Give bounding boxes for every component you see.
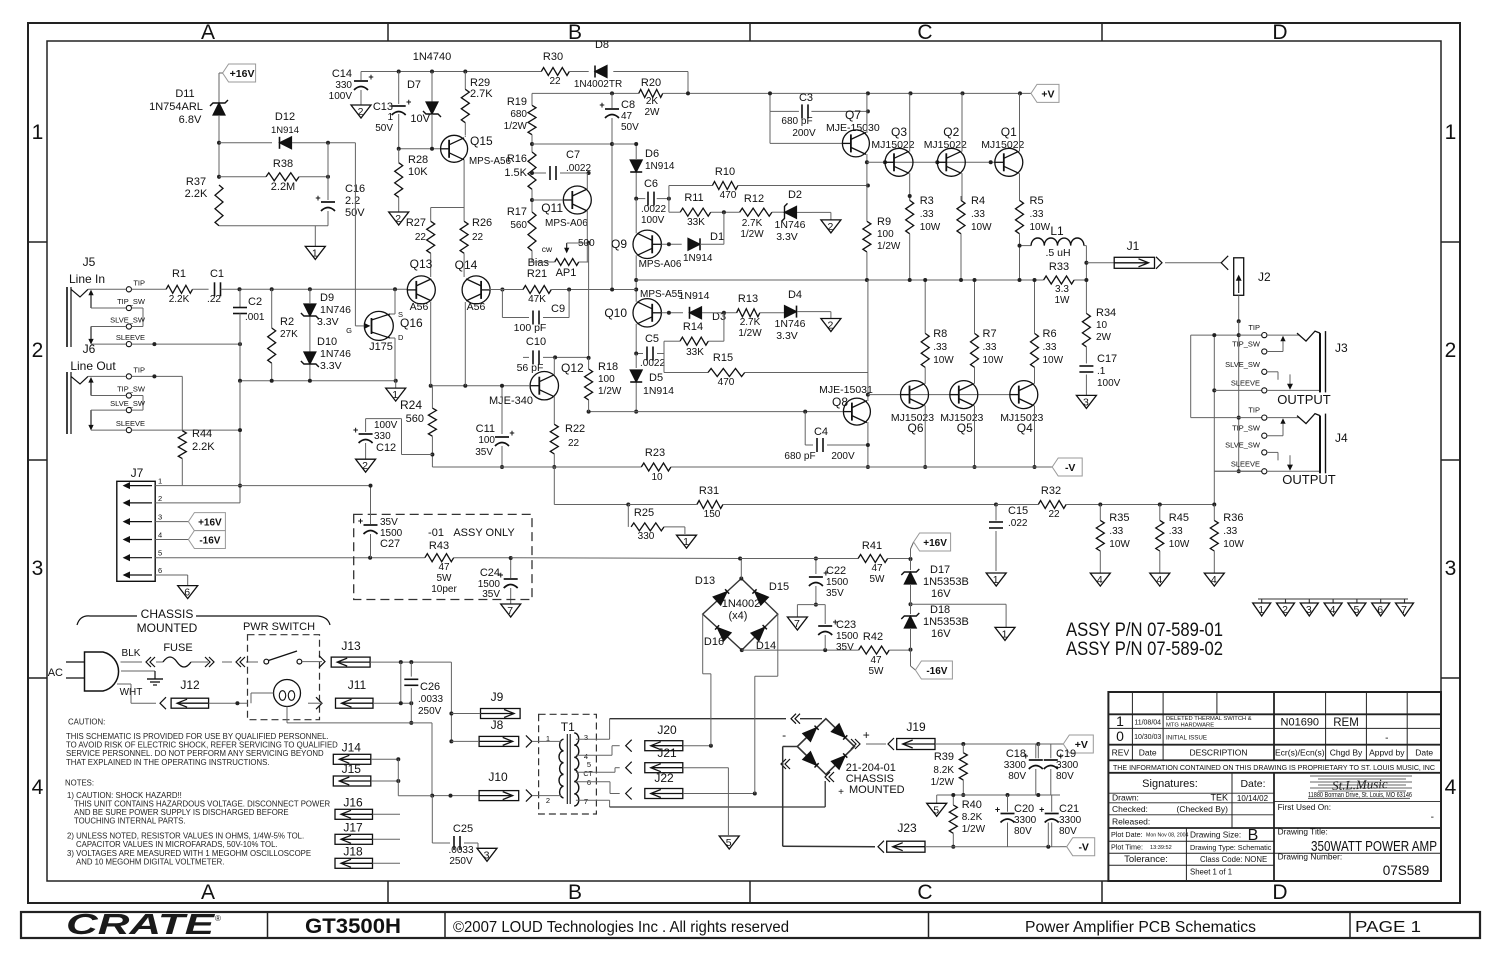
svg-text:D5: D5 [649, 372, 663, 384]
svg-text:TIP_SW: TIP_SW [117, 297, 146, 306]
svg-text:SLVE_SW: SLVE_SW [1225, 440, 1261, 449]
svg-text:R37: R37 [186, 176, 206, 188]
svg-text:TIP: TIP [1248, 406, 1260, 415]
svg-text:Drawn:: Drawn: [1112, 793, 1139, 803]
svg-text:C12: C12 [376, 442, 396, 454]
svg-text:5: 5 [158, 549, 162, 558]
svg-text:C1: C1 [210, 268, 224, 280]
svg-text:3300: 3300 [1059, 815, 1082, 826]
svg-text:Tolerance:: Tolerance: [1124, 854, 1168, 865]
svg-text:4: 4 [1330, 604, 1336, 616]
svg-text:10W: 10W [1169, 539, 1190, 550]
svg-text:Line Out: Line Out [70, 359, 116, 373]
svg-text:D15: D15 [769, 581, 789, 593]
svg-text:2: 2 [827, 221, 833, 233]
svg-text:C22: C22 [826, 565, 846, 577]
svg-text:47: 47 [621, 111, 633, 122]
svg-text:GT3500H: GT3500H [305, 915, 401, 938]
svg-text:R22: R22 [565, 423, 585, 435]
svg-text:330: 330 [335, 80, 352, 91]
svg-text:R36: R36 [1223, 512, 1243, 524]
svg-text:L1: L1 [1050, 224, 1064, 238]
svg-text:Q2: Q2 [943, 125, 959, 139]
svg-text:R21: R21 [527, 268, 547, 280]
svg-text:5W: 5W [870, 574, 886, 585]
svg-text:+16V: +16V [198, 518, 222, 529]
svg-text:TOUCHING INTERNAL PARTS.: TOUCHING INTERNAL PARTS. [74, 817, 185, 826]
svg-text:OUTPUT: OUTPUT [1277, 392, 1331, 407]
svg-text:J18: J18 [343, 844, 363, 858]
svg-text:CRATE: CRATE [66, 909, 217, 941]
svg-text:J21: J21 [657, 746, 677, 760]
svg-text:8.2K: 8.2K [933, 765, 954, 776]
svg-text:J3: J3 [1335, 341, 1348, 355]
svg-text:47K: 47K [528, 294, 546, 305]
svg-text:2.7K: 2.7K [742, 218, 763, 229]
svg-text:SLVE_SW: SLVE_SW [1225, 360, 1261, 369]
svg-text:R26: R26 [472, 217, 492, 229]
svg-text:C23: C23 [836, 619, 856, 631]
svg-text:R6: R6 [1043, 328, 1057, 340]
svg-text:1N914: 1N914 [271, 125, 299, 136]
svg-text:330: 330 [374, 431, 391, 442]
svg-text:-V: -V [1078, 842, 1089, 854]
svg-text:1: 1 [683, 536, 689, 548]
svg-text:6: 6 [587, 778, 591, 787]
svg-text:+: + [509, 428, 514, 438]
svg-text:1N4740: 1N4740 [413, 51, 452, 63]
svg-text:ASSY P/N 07-589-02: ASSY P/N 07-589-02 [1066, 639, 1223, 660]
svg-text:Q12: Q12 [561, 361, 584, 375]
svg-text:C: C [917, 881, 932, 904]
svg-text:6.8V: 6.8V [179, 114, 202, 126]
svg-text:MPS-A06: MPS-A06 [545, 218, 588, 229]
svg-text:G: G [346, 326, 352, 335]
svg-text:D10: D10 [317, 336, 337, 348]
svg-text:R27: R27 [406, 217, 426, 229]
svg-text:10V: 10V [410, 113, 430, 125]
svg-text:Signatures:: Signatures: [1142, 778, 1198, 790]
svg-text:(x4): (x4) [729, 610, 748, 622]
svg-text:.33: .33 [1030, 209, 1044, 220]
svg-text:J6: J6 [83, 342, 96, 356]
svg-text:R9: R9 [877, 216, 891, 228]
svg-text:1/2W: 1/2W [962, 824, 986, 835]
svg-text:TIP: TIP [133, 365, 145, 374]
svg-text:C10: C10 [526, 336, 546, 348]
svg-text:R13: R13 [738, 293, 758, 305]
svg-text:C5: C5 [645, 333, 659, 345]
svg-text:SLEEVE: SLEEVE [1231, 459, 1260, 468]
svg-text:REV: REV [1112, 748, 1130, 758]
svg-text:4: 4 [158, 531, 162, 540]
svg-text:B: B [568, 21, 582, 44]
svg-text:J5: J5 [83, 255, 96, 269]
svg-text:7: 7 [1401, 604, 1407, 616]
svg-text:Drawing Size:: Drawing Size: [1190, 829, 1241, 839]
svg-text:CHASSIS: CHASSIS [141, 607, 194, 621]
svg-text:DELETED THERMAL SWITCH &: DELETED THERMAL SWITCH & [1166, 716, 1252, 722]
svg-text:Date: Date [1139, 748, 1157, 758]
svg-text:Q11: Q11 [541, 201, 563, 215]
svg-text:+V: +V [1041, 88, 1054, 100]
svg-text:50V: 50V [375, 123, 393, 134]
svg-text:80V: 80V [1014, 826, 1032, 837]
svg-text:680: 680 [510, 109, 527, 120]
svg-text:Date:: Date: [1240, 778, 1265, 790]
svg-text:D1: D1 [710, 231, 724, 243]
svg-text:R7: R7 [983, 328, 997, 340]
svg-text:560: 560 [406, 413, 424, 425]
svg-text:C11: C11 [476, 423, 495, 435]
svg-text:R32: R32 [1041, 485, 1061, 497]
svg-text:1N754ARL: 1N754ARL [149, 101, 203, 113]
svg-text:250V: 250V [418, 706, 442, 717]
svg-text:7: 7 [794, 618, 800, 630]
svg-text:1500: 1500 [826, 577, 849, 588]
svg-text:47: 47 [871, 563, 883, 574]
svg-text:AND 10 MEGOHM DIGITAL VOLTMETE: AND 10 MEGOHM DIGITAL VOLTMETER. [76, 857, 224, 866]
svg-text:SLVE_SW: SLVE_SW [110, 316, 146, 325]
svg-text:1: 1 [1116, 713, 1124, 729]
svg-text:MJ15022: MJ15022 [981, 139, 1024, 151]
svg-text:D17: D17 [930, 564, 950, 576]
svg-text:2: 2 [358, 106, 364, 118]
svg-text:MJE-15030: MJE-15030 [826, 122, 880, 134]
svg-text:470: 470 [718, 377, 735, 388]
svg-text:35V: 35V [475, 447, 493, 458]
svg-text:C19: C19 [1056, 748, 1076, 760]
svg-text:1N5353B: 1N5353B [923, 576, 969, 588]
svg-text:cw: cw [542, 244, 553, 254]
svg-text:11/08/04: 11/08/04 [1134, 720, 1161, 727]
svg-text:22: 22 [1048, 509, 1060, 520]
svg-text:47: 47 [870, 655, 882, 666]
svg-text:10W: 10W [971, 222, 992, 233]
svg-text:C6: C6 [644, 178, 658, 190]
svg-text:6: 6 [1377, 604, 1383, 616]
svg-text:1W: 1W [1055, 295, 1071, 306]
svg-text:80V: 80V [1059, 826, 1077, 837]
svg-text:2: 2 [158, 494, 162, 503]
svg-text:Sheet 1 of 1: Sheet 1 of 1 [1190, 868, 1232, 877]
svg-text:7: 7 [584, 797, 588, 806]
svg-text:TIP: TIP [133, 278, 145, 287]
svg-text:2K: 2K [646, 96, 659, 107]
svg-text:1/2W: 1/2W [740, 229, 764, 240]
svg-text:C24: C24 [480, 567, 500, 579]
svg-text:R12: R12 [744, 193, 764, 205]
svg-text:C8: C8 [621, 99, 635, 111]
svg-text:.5 uH: .5 uH [1045, 247, 1070, 259]
svg-text:10/14/02: 10/14/02 [1237, 794, 1269, 803]
svg-text:27K: 27K [280, 329, 298, 340]
svg-text:Q8: Q8 [832, 395, 848, 409]
svg-text:3.3V: 3.3V [317, 316, 339, 328]
svg-text:-16V: -16V [199, 536, 220, 547]
svg-text:47: 47 [438, 562, 450, 573]
svg-text:-: - [1431, 812, 1434, 823]
svg-text:Drawing Title:: Drawing Title: [1278, 827, 1328, 837]
svg-text:10W: 10W [1109, 539, 1130, 550]
svg-text:R28: R28 [408, 154, 428, 166]
svg-text:.33: .33 [1043, 342, 1057, 353]
svg-text:1/2W: 1/2W [931, 777, 955, 788]
svg-text:TIP_SW: TIP_SW [117, 385, 146, 394]
svg-text:PAGE 1: PAGE 1 [1355, 919, 1421, 936]
svg-text:R30: R30 [543, 51, 563, 63]
svg-text:+V: +V [1075, 739, 1088, 751]
svg-text:-: - [782, 728, 786, 742]
svg-text:4: 4 [1097, 574, 1103, 586]
svg-text:+16V: +16V [923, 538, 947, 549]
svg-text:A: A [201, 881, 215, 904]
svg-text:Appvd by: Appvd by [1369, 748, 1405, 758]
svg-text:-01: -01 [428, 527, 444, 539]
svg-text:ASSY ONLY: ASSY ONLY [453, 527, 515, 539]
svg-text:2.2K: 2.2K [185, 188, 208, 200]
svg-text:100V: 100V [641, 215, 665, 226]
svg-text:1: 1 [1445, 121, 1457, 144]
svg-text:3300: 3300 [1014, 815, 1037, 826]
svg-text:MJE-340: MJE-340 [489, 395, 533, 407]
svg-text:NOTES:: NOTES: [65, 779, 94, 788]
svg-text:2W: 2W [645, 107, 661, 118]
svg-text:D: D [398, 333, 404, 342]
svg-text:Q9: Q9 [611, 237, 627, 251]
svg-text:3: 3 [158, 513, 162, 522]
svg-text:+16V: +16V [230, 68, 255, 80]
svg-text:J19: J19 [906, 720, 926, 734]
svg-text:OUTPUT: OUTPUT [1282, 472, 1336, 487]
svg-text:REM: REM [1333, 717, 1359, 729]
svg-text:First Used On:: First Used On: [1278, 802, 1331, 812]
svg-text:J11: J11 [348, 678, 367, 692]
svg-text:D11: D11 [175, 88, 194, 100]
svg-text:1: 1 [993, 574, 999, 586]
svg-text:07S589: 07S589 [1383, 863, 1430, 878]
svg-text:MTG HARDWARE: MTG HARDWARE [1166, 723, 1214, 729]
svg-text:B: B [1248, 827, 1259, 844]
svg-text:1: 1 [392, 389, 398, 401]
svg-text:6: 6 [158, 566, 162, 575]
svg-text:A56: A56 [410, 301, 429, 313]
svg-text:+: + [1039, 805, 1044, 815]
svg-text:4: 4 [1445, 776, 1457, 799]
svg-text:C26: C26 [420, 681, 440, 693]
svg-text:35V: 35V [380, 517, 398, 528]
svg-text:22: 22 [415, 232, 427, 243]
svg-text:C27: C27 [380, 538, 400, 550]
svg-text:2: 2 [32, 339, 44, 362]
svg-text:1: 1 [312, 247, 318, 259]
svg-text:Drawing Type: Schematic: Drawing Type: Schematic [1190, 843, 1272, 852]
svg-text:MOUNTED: MOUNTED [849, 784, 905, 796]
svg-text:J16: J16 [343, 795, 363, 809]
svg-text:4: 4 [32, 776, 44, 799]
svg-text:+: + [599, 100, 604, 110]
svg-text:ASSY P/N 07-589-01: ASSY P/N 07-589-01 [1066, 620, 1223, 641]
svg-text:(Checked By): (Checked By) [1177, 804, 1229, 814]
svg-text:J13: J13 [341, 639, 361, 653]
svg-text:Drawing Number:: Drawing Number: [1278, 852, 1343, 862]
svg-text:R10: R10 [715, 166, 735, 178]
svg-text:C18: C18 [1006, 748, 1026, 760]
svg-text:+: + [368, 72, 373, 82]
svg-text:R24: R24 [400, 398, 422, 412]
svg-text:35V: 35V [482, 589, 500, 600]
svg-text:80V: 80V [1056, 771, 1074, 782]
svg-text:TIP_SW: TIP_SW [1232, 340, 1261, 349]
svg-text:R41: R41 [862, 540, 882, 552]
svg-text:Q10: Q10 [604, 306, 627, 320]
svg-text:200V: 200V [792, 128, 816, 139]
svg-text:J9: J9 [491, 690, 504, 704]
svg-text:33K: 33K [686, 347, 704, 358]
svg-text:1N5353B: 1N5353B [923, 616, 969, 628]
svg-text:THAT EXPLAINED IN THE OPERATIN: THAT EXPLAINED IN THE OPERATING INSTRUCT… [66, 758, 269, 767]
svg-text:C20: C20 [1014, 803, 1034, 815]
svg-text:1N746: 1N746 [775, 318, 806, 330]
svg-text:100: 100 [877, 229, 894, 240]
svg-text:BLK: BLK [122, 648, 141, 659]
svg-text:D: D [1272, 881, 1287, 904]
svg-text:J22: J22 [654, 771, 674, 785]
svg-text:Released:: Released: [1112, 817, 1150, 827]
svg-text:150: 150 [704, 509, 721, 520]
svg-text:.33: .33 [1223, 526, 1237, 537]
svg-text:MJ15023: MJ15023 [1000, 412, 1043, 424]
svg-text:330: 330 [638, 531, 655, 542]
svg-text:SLEEVE: SLEEVE [116, 333, 145, 342]
svg-text:80V: 80V [1008, 771, 1026, 782]
svg-text:Q14: Q14 [455, 258, 478, 272]
svg-text:B: B [568, 881, 582, 904]
svg-text:D13: D13 [695, 575, 715, 587]
svg-text:C3: C3 [799, 92, 813, 104]
svg-text:10K: 10K [408, 166, 428, 178]
svg-text:SLEEVE: SLEEVE [116, 419, 145, 428]
svg-text:MPS-A56: MPS-A56 [469, 156, 511, 167]
svg-text:C14: C14 [332, 68, 352, 80]
svg-text:2: 2 [1445, 339, 1457, 362]
svg-text:680 pF: 680 pF [781, 116, 812, 127]
svg-text:8.2K: 8.2K [962, 812, 983, 823]
svg-text:R16: R16 [507, 153, 527, 165]
svg-text:+: + [838, 787, 844, 798]
svg-text:R19: R19 [507, 96, 527, 108]
svg-text:D6: D6 [645, 148, 659, 160]
svg-text:13:39:52: 13:39:52 [1150, 845, 1172, 851]
svg-text:D18: D18 [930, 604, 950, 616]
svg-text:Line In: Line In [69, 272, 105, 286]
svg-text:T1: T1 [561, 720, 575, 734]
svg-text:1/2W: 1/2W [504, 121, 528, 132]
svg-text:J175: J175 [369, 341, 393, 353]
svg-text:680 pF: 680 pF [784, 451, 815, 462]
svg-text:AP1: AP1 [556, 267, 577, 279]
svg-text:Ecr(s)/Ecn(s): Ecr(s)/Ecn(s) [1275, 748, 1325, 758]
svg-text:10/30/03: 10/30/03 [1134, 734, 1161, 741]
svg-text:AC: AC [48, 667, 63, 679]
svg-text:3: 3 [32, 557, 44, 580]
svg-text:1/2W: 1/2W [877, 241, 901, 252]
svg-text:.001: .001 [245, 312, 265, 323]
svg-text:100: 100 [598, 374, 615, 385]
svg-text:5: 5 [587, 760, 591, 769]
svg-text:3: 3 [1083, 396, 1089, 408]
svg-text:J7: J7 [131, 466, 144, 480]
svg-text:D2: D2 [788, 189, 802, 201]
svg-text:D12: D12 [275, 111, 295, 123]
svg-text:-16V: -16V [926, 666, 947, 677]
svg-text:FUSE: FUSE [163, 642, 192, 654]
svg-text:100 pF: 100 pF [514, 322, 547, 334]
svg-text:Q16: Q16 [400, 316, 423, 330]
svg-text:©2007 LOUD Technologies Inc .: ©2007 LOUD Technologies Inc . All rights… [453, 919, 789, 936]
svg-text:C15: C15 [1008, 505, 1028, 517]
svg-text:1.5K: 1.5K [504, 167, 527, 179]
svg-text:R15: R15 [713, 352, 733, 364]
svg-text:35V: 35V [836, 642, 854, 653]
svg-text:Mon Nov 08, 2004: Mon Nov 08, 2004 [1146, 833, 1189, 839]
svg-text:5W: 5W [869, 666, 885, 677]
svg-text:.33: .33 [983, 342, 997, 353]
svg-text:2: 2 [1282, 604, 1288, 616]
svg-text:C9: C9 [551, 303, 565, 315]
svg-text:Power Amplifier PCB Schematics: Power Amplifier PCB Schematics [1025, 919, 1256, 936]
svg-text:10: 10 [651, 472, 663, 483]
svg-text:R5: R5 [1030, 195, 1044, 207]
svg-text:D4: D4 [788, 289, 802, 301]
svg-text:R39: R39 [934, 751, 954, 763]
svg-text:1N914: 1N914 [683, 253, 713, 264]
svg-text:10W: 10W [920, 222, 941, 233]
svg-text:3300: 3300 [1004, 760, 1027, 771]
svg-text:R23: R23 [645, 447, 665, 459]
svg-text:33K: 33K [687, 217, 705, 228]
svg-text:Q13: Q13 [410, 257, 433, 271]
svg-text:J14: J14 [342, 740, 362, 754]
svg-text:4: 4 [1211, 574, 1217, 586]
svg-text:R20: R20 [641, 77, 661, 89]
svg-text:Date: Date [1415, 748, 1433, 758]
svg-text:THE INFORMATION CONTAINED ON T: THE INFORMATION CONTAINED ON THIS DRAWIN… [1113, 763, 1435, 772]
svg-text:MJ15022: MJ15022 [924, 139, 967, 151]
svg-text:2.7K: 2.7K [740, 317, 761, 328]
svg-text:+: + [353, 425, 358, 435]
svg-text:R17: R17 [507, 206, 527, 218]
svg-text:1: 1 [1258, 604, 1264, 616]
svg-text:R2: R2 [280, 316, 294, 328]
svg-text:5: 5 [933, 804, 939, 816]
svg-text:.33: .33 [920, 209, 934, 220]
svg-text:2.2M: 2.2M [271, 181, 295, 193]
svg-text:2W: 2W [1096, 332, 1112, 343]
svg-text:1N914: 1N914 [679, 290, 710, 302]
svg-text:2.7K: 2.7K [470, 88, 493, 100]
svg-text:J17: J17 [343, 820, 363, 834]
svg-text:MJ15022: MJ15022 [871, 139, 914, 151]
svg-text:-: - [1385, 733, 1388, 744]
svg-text:1N4002TR: 1N4002TR [574, 79, 622, 90]
svg-text:3.3V: 3.3V [776, 330, 798, 342]
svg-text:TEK: TEK [1210, 793, 1228, 803]
svg-text:6: 6 [184, 587, 190, 599]
svg-text:22: 22 [549, 76, 561, 87]
svg-text:1N746: 1N746 [320, 304, 351, 316]
svg-text:J12: J12 [180, 678, 200, 692]
